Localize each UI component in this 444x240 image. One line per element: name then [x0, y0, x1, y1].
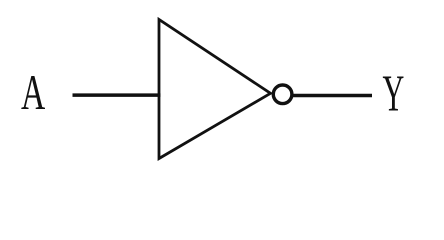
inverter triangle U1 — [159, 20, 271, 159]
node A — [21, 76, 45, 109]
bubble (inversion circle) — [273, 85, 292, 104]
node Y — [383, 77, 404, 111]
wire input — [73, 93, 161, 97]
wire output — [292, 94, 372, 98]
